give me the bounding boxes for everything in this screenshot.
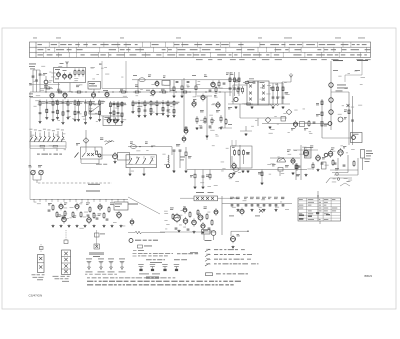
svg-text:CS/47/GN: CS/47/GN: [29, 294, 43, 298]
